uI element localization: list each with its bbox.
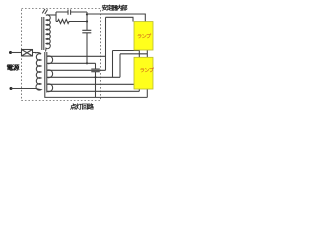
wire terminal to fuse <box>11 51 22 53</box>
core upper <box>42 17 44 50</box>
terminal dot upper <box>9 51 12 54</box>
bus wire y70 <box>47 69 106 71</box>
filament winding W1 <box>47 56 53 64</box>
junction dot C <box>86 62 88 64</box>
bus wire y56 <box>47 55 105 57</box>
node riser left <box>55 12 57 22</box>
core lower <box>45 52 47 93</box>
wire secondary top to RC <box>48 14 56 16</box>
capacitor C1 branch <box>56 11 87 13</box>
lamp 2 <box>134 57 155 89</box>
wire V1 vertical <box>104 17 106 70</box>
main wire to lamp1 top <box>87 14 145 22</box>
svg-text:ランプ: ランプ <box>139 67 154 74</box>
stub lamp gap right <box>146 50 148 57</box>
junction dot D <box>94 76 96 78</box>
wire fuse to primary winding <box>33 51 37 53</box>
filament winding W3 <box>47 84 53 92</box>
svg-text:安定器内部: 安定器内部 <box>102 4 129 12</box>
svg-text:電源: 電源 <box>6 64 19 72</box>
lamp 1 <box>134 22 153 51</box>
fuse F (box with X) <box>22 49 33 56</box>
svg-text:ランプ: ランプ <box>137 33 152 40</box>
polarity slashes <box>42 9 47 14</box>
capacitor C3 plates <box>91 69 100 72</box>
node riser right <box>86 12 88 21</box>
capacitor C2 drop wire <box>86 22 88 64</box>
bus wire y63 <box>47 62 95 64</box>
wire V1 to lamp1 top left <box>106 17 134 21</box>
resistor R1 branch <box>56 19 87 23</box>
primary winding L1 <box>35 53 41 91</box>
bus wire y84 <box>47 83 134 85</box>
bus wire y91 <box>47 90 139 92</box>
filament winding W2 <box>47 70 53 78</box>
bus wire y77 <box>47 76 120 78</box>
wire mid gap right <box>120 53 147 55</box>
stub lamp2 bottom left <box>138 89 140 91</box>
return wire y97 <box>45 92 148 97</box>
wire V2 vertical <box>111 51 113 78</box>
wire V3 vertical <box>119 54 121 78</box>
terminal dot lower <box>9 87 12 90</box>
stub lamp gap left <box>138 50 140 57</box>
stub lamp2 bottom right <box>146 89 148 97</box>
capacitor C3 wire <box>94 63 96 97</box>
junction dot B <box>86 20 88 22</box>
secondary winding L2 <box>46 15 51 52</box>
ballast enclosure dashed box <box>21 8 100 100</box>
wire mid gap left <box>113 50 140 52</box>
capacitor C2 plates <box>82 30 91 33</box>
wire lower terminal to primary bottom <box>11 87 36 89</box>
junction dot A <box>86 13 88 15</box>
svg-text:点灯回路: 点灯回路 <box>70 103 94 111</box>
